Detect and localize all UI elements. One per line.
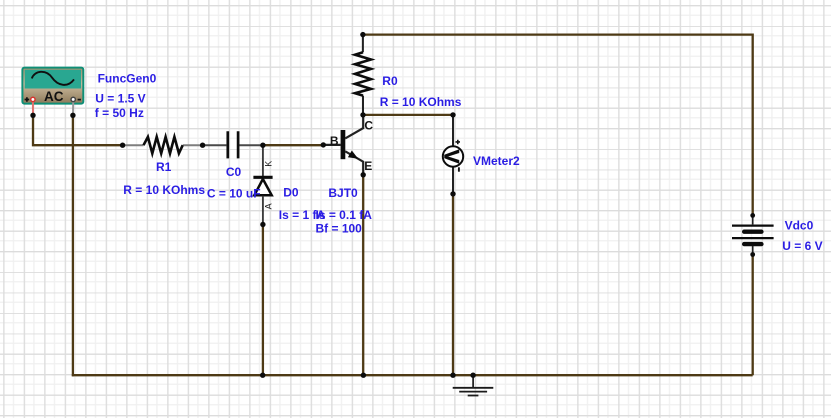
wire left vertical from FuncGen minus <box>72 115 74 376</box>
svg-text:Bf = 100: Bf = 100 <box>316 221 363 235</box>
ground bar 3 <box>468 395 479 397</box>
junction node C0/D0 <box>260 143 265 148</box>
wire right vertical below battery <box>752 255 754 376</box>
diode D0 cathode lead <box>262 146 264 177</box>
transistor BJT0 base lead <box>323 144 340 146</box>
junction node R1 left <box>120 143 125 148</box>
battery Vdc0 plate short thick 2 <box>744 242 761 246</box>
FuncGen0 plus terminal <box>31 97 35 101</box>
FuncGen0 plus sign <box>25 97 30 102</box>
battery Vdc0 plate short thick 1 <box>744 229 761 233</box>
transistor BJT0 base bar <box>341 130 346 159</box>
junction node bus D0 <box>260 373 265 378</box>
svg-text:C0: C0 <box>226 165 242 179</box>
resistor R0 leads <box>362 35 364 115</box>
battery Vdc0 top lead <box>752 216 754 224</box>
svg-text:Is = 0.1 fA: Is = 0.1 fA <box>316 208 373 222</box>
capacitor C0 leads <box>203 144 263 146</box>
junction node VMeter top <box>450 112 455 117</box>
FuncGen0 minus terminal <box>71 97 75 101</box>
junction node R1/C0 <box>200 143 205 148</box>
svg-text:U = 1.5 V: U = 1.5 V <box>95 91 145 105</box>
svg-text:A: A <box>264 203 274 209</box>
svg-text:B: B <box>330 134 339 148</box>
svg-text:Vdc0: Vdc0 <box>785 218 814 232</box>
resistor R1 leads <box>123 144 203 146</box>
FuncGen0 minus sign <box>78 99 81 101</box>
svg-text:C = 10 uF: C = 10 uF <box>207 187 261 201</box>
svg-text:R = 10 KOhms: R = 10 KOhms <box>380 95 462 109</box>
svg-text:U = 6 V: U = 6 V <box>782 239 822 253</box>
FuncGen0 plus terminal stub <box>32 102 34 115</box>
battery Vdc0 plate long top <box>732 225 774 227</box>
resistor R0 zigzag <box>355 52 371 95</box>
svg-text:K: K <box>264 161 274 167</box>
svg-text:R = 10 KOhms: R = 10 KOhms <box>123 183 205 197</box>
junction node BJT base <box>321 142 326 147</box>
svg-text:VMeter2: VMeter2 <box>473 154 520 168</box>
capacitor C0 plates <box>228 131 238 158</box>
transistor BJT0 emitter arrow <box>348 151 358 159</box>
junction node VMeter bottom <box>450 191 455 196</box>
voltmeter VMeter2 body <box>443 146 463 166</box>
battery Vdc0 bottom lead <box>752 246 754 255</box>
diode D0 anode lead <box>262 196 264 225</box>
diode D0 cathode bar <box>253 176 272 179</box>
junction node collector <box>360 112 365 117</box>
ground bar 2 <box>459 391 487 393</box>
junction node bus VMeter <box>450 373 455 378</box>
FuncGen0 sine wave <box>32 72 74 85</box>
resistor R1 zigzag <box>144 137 183 154</box>
wire bottom bus <box>72 374 753 376</box>
FuncGen0 body <box>22 68 83 114</box>
diode D0 triangle <box>254 179 271 195</box>
junction node bus emitter <box>361 373 366 378</box>
ground stub <box>472 376 474 387</box>
transistor BJT0 emitter <box>345 151 363 175</box>
svg-text:R1: R1 <box>156 160 172 174</box>
junction node battery bottom <box>750 252 755 257</box>
voltmeter VMeter2 minus sign <box>458 167 460 171</box>
junction node bus ground <box>470 373 475 378</box>
FuncGen0 minus terminal stub <box>72 102 74 115</box>
wire collector node to VMeter top <box>363 114 453 116</box>
svg-text:FuncGen0: FuncGen0 <box>98 71 157 85</box>
voltmeter VMeter2 bottom lead <box>452 167 454 194</box>
junction node FuncGen plus <box>30 113 35 118</box>
wire BJT emitter down to bus <box>362 175 364 375</box>
svg-text:E: E <box>364 159 372 173</box>
battery Vdc0 plate long bottom <box>732 237 774 239</box>
junction node battery top <box>750 213 755 218</box>
junction node emitter <box>361 172 366 177</box>
wire C0 to BJT base <box>263 144 323 146</box>
voltmeter VMeter2 top lead <box>452 115 454 146</box>
svg-text:C: C <box>364 118 373 132</box>
junction node D0 anode <box>260 222 265 227</box>
svg-text:V: V <box>440 150 463 164</box>
transistor BJT0 collector <box>345 115 363 138</box>
voltmeter VMeter2 plus sign <box>456 140 461 145</box>
svg-text:BJT0: BJT0 <box>328 186 358 200</box>
junction node FuncGen minus <box>70 113 75 118</box>
junction node R0 top <box>360 32 365 37</box>
wire from FuncGen plus to R1 <box>33 115 123 145</box>
wire VMeter bottom down to bus <box>452 194 454 375</box>
svg-text:AC: AC <box>44 89 64 104</box>
svg-text:f = 50 Hz: f = 50 Hz <box>95 106 144 120</box>
wire top bus from R0 to right side <box>363 35 753 216</box>
wire D0 anode down to bus <box>262 225 264 376</box>
svg-text:D0: D0 <box>283 186 299 200</box>
ground bar 1 <box>453 387 494 389</box>
svg-text:R0: R0 <box>382 74 398 88</box>
